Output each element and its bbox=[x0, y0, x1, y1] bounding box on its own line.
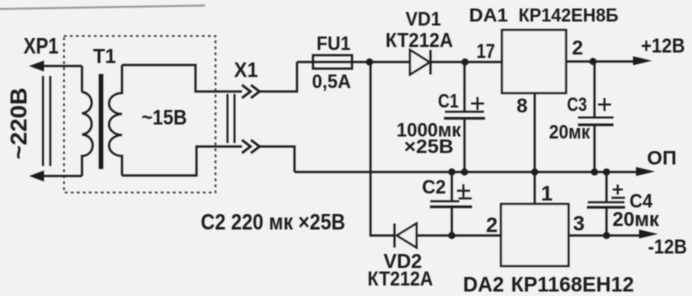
wire AC vertical to VD2 bbox=[371, 62, 395, 236]
svg-text:17: 17 bbox=[477, 41, 496, 63]
node C1 top junction bbox=[461, 58, 468, 65]
connector X1 top chevrons bbox=[242, 85, 260, 98]
svg-text:3: 3 bbox=[573, 213, 585, 236]
svg-text:С1: С1 bbox=[438, 92, 459, 113]
capacitor C3 bbox=[593, 62, 595, 118]
svg-text:КР142ЕН8Б: КР142ЕН8Б bbox=[519, 6, 619, 26]
svg-text:Т1: Т1 bbox=[93, 46, 116, 68]
capacitor C1 bbox=[463, 62, 465, 111]
fuse FU1 bbox=[313, 55, 352, 68]
svg-text:FU1: FU1 bbox=[317, 33, 351, 55]
svg-text:ОП: ОП bbox=[647, 148, 677, 170]
node C1 bottom dot bbox=[461, 168, 468, 175]
connector X1 bottom chevrons bbox=[242, 140, 260, 153]
svg-text:~15В: ~15В bbox=[142, 106, 188, 130]
svg-text:20мк: 20мк bbox=[613, 209, 660, 231]
node pin8 pin1 dot bbox=[531, 168, 538, 175]
IC DA1 box bbox=[502, 30, 566, 93]
svg-text:~220В: ~220В bbox=[6, 88, 32, 160]
wire VD2 to DA2 pin2 bbox=[417, 234, 502, 236]
wire X1 bottom to common rail bbox=[260, 147, 295, 173]
svg-text:1: 1 bbox=[541, 183, 553, 206]
diode VD1 bbox=[410, 50, 430, 75]
svg-text:С2 220 мк ×25В: С2 220 мк ×25В bbox=[201, 210, 345, 235]
capacitor C2 bbox=[451, 172, 453, 201]
svg-text:2: 2 bbox=[572, 38, 583, 60]
wire from XP1 top to primary bbox=[81, 66, 83, 92]
transformer T1 primary winding bbox=[82, 92, 93, 176]
svg-text:0,5А: 0,5А bbox=[312, 71, 351, 93]
svg-text:20мк: 20мк bbox=[549, 123, 590, 144]
svg-text:×25В: ×25В bbox=[404, 137, 454, 158]
XP1 bottom arrow wire bbox=[40, 175, 82, 177]
svg-text:X1: X1 bbox=[234, 59, 258, 82]
node C4 top dot bbox=[603, 168, 610, 175]
IC DA2 box bbox=[501, 204, 569, 266]
wire pin 8 to common bbox=[534, 93, 536, 172]
svg-text:ХР1: ХР1 bbox=[24, 34, 59, 59]
wire top rail through fuse to VD1 bbox=[297, 61, 410, 63]
wire pin3 to -12V bbox=[569, 234, 641, 236]
svg-text:С3: С3 bbox=[567, 94, 587, 116]
node AC junction dot bbox=[366, 58, 373, 65]
OP arrow bbox=[636, 167, 655, 176]
node C4 bottom dot bbox=[603, 232, 610, 239]
svg-text:2: 2 bbox=[486, 214, 498, 237]
-12V arrow bbox=[639, 230, 658, 239]
node C2 top dot bbox=[448, 168, 455, 175]
svg-text:8: 8 bbox=[517, 96, 528, 118]
transformer dashed box bbox=[64, 36, 216, 193]
svg-text:DA1: DA1 bbox=[469, 6, 508, 26]
node C2 bottom dot bbox=[448, 232, 455, 239]
svg-text:+12В: +12В bbox=[641, 36, 685, 58]
transformer T1 secondary winding bbox=[109, 65, 122, 176]
wire X1 top to fuse level bbox=[260, 62, 298, 92]
wire pin2 to +12V bbox=[566, 60, 636, 62]
node pin2 junction dot bbox=[589, 58, 596, 65]
svg-text:КТ212А: КТ212А bbox=[386, 30, 454, 52]
+12V arrow bbox=[633, 56, 652, 65]
wire pin1 to common bbox=[534, 172, 536, 204]
svg-text:С2: С2 bbox=[422, 177, 446, 199]
common rail OP bbox=[295, 171, 638, 173]
scan artifact top-left bbox=[0, 6, 205, 10]
svg-text:VD1: VD1 bbox=[406, 10, 442, 31]
capacitor C4 bbox=[605, 172, 607, 202]
connector X1 separator double lines bbox=[228, 94, 235, 143]
svg-text:КР1168ЕН12: КР1168ЕН12 bbox=[511, 274, 634, 296]
wire VD1 cathode to DA1 bbox=[431, 61, 503, 63]
svg-text:-12В: -12В bbox=[648, 237, 687, 259]
XP1 top arrow wire bbox=[40, 65, 82, 67]
wire secondary bottom to X1 bbox=[122, 147, 242, 176]
node C3 bottom dot bbox=[591, 168, 598, 175]
svg-text:DA2: DA2 bbox=[463, 274, 504, 296]
transformer core bbox=[99, 74, 104, 169]
XP1 connector double lines bbox=[43, 76, 50, 166]
wire secondary top to X1 bbox=[122, 65, 242, 92]
svg-text:КТ212А: КТ212А bbox=[368, 269, 434, 291]
diode VD2 bbox=[397, 224, 417, 248]
